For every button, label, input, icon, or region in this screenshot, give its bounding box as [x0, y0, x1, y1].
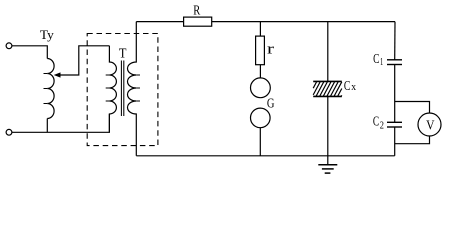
svg-text:C: C [344, 78, 351, 93]
wire top input to Ty coil top [12, 46, 47, 59]
wire divider tap to voltmeter [395, 102, 430, 114]
wire top bus left segment [136, 21, 183, 23]
autotransformer Ty winding [44, 59, 55, 119]
svg-text:T: T [119, 46, 127, 61]
sphere gap G lower sphere [250, 108, 270, 128]
svg-text:V: V [426, 118, 434, 133]
wire C2 to bottom bus [394, 127, 396, 156]
svg-text:R: R [193, 4, 200, 19]
transformer core [121, 61, 123, 117]
wire Cx to ground [327, 96, 329, 164]
wiper arrow of Ty [54, 46, 110, 78]
wire sphere gap to bottom bus [259, 128, 261, 156]
svg-text:C: C [373, 51, 379, 66]
svg-text:r: r [267, 42, 274, 58]
capacitor C1 [387, 60, 402, 65]
wire top bus right segment [212, 21, 395, 23]
svg-text:2: 2 [380, 120, 384, 131]
wire bottom input to transformer primary bottom [12, 114, 109, 132]
sphere gap G upper sphere [251, 78, 271, 98]
wire C1 to C2 [394, 65, 396, 123]
svg-text:G: G [267, 97, 275, 112]
svg-text:x: x [351, 81, 356, 93]
resistor R [184, 17, 212, 26]
wire top bus to C1 [394, 22, 396, 60]
ground [318, 165, 337, 173]
wire bottom bus [136, 155, 394, 157]
capacitor C2 [387, 122, 402, 127]
terminal input top [6, 43, 12, 49]
svg-text:1: 1 [380, 57, 383, 68]
wire voltmeter to C2 bottom [395, 136, 430, 144]
test object capacitor Cx (hatched) [313, 81, 342, 96]
wire r to sphere gap [259, 65, 261, 78]
terminal input bottom [6, 129, 12, 135]
dashed enclosure of transformer T [87, 34, 158, 146]
voltmeter V [418, 113, 441, 136]
transformer T secondary winding [128, 22, 141, 156]
svg-text:C: C [373, 114, 379, 129]
wire top bus to resistor r [259, 22, 261, 36]
resistor r [256, 36, 265, 65]
transformer T primary winding [106, 46, 117, 133]
wire top bus to Cx [327, 22, 329, 82]
wire Ty coil bottom lead [46, 119, 48, 133]
svg-text:Ty: Ty [40, 27, 55, 42]
